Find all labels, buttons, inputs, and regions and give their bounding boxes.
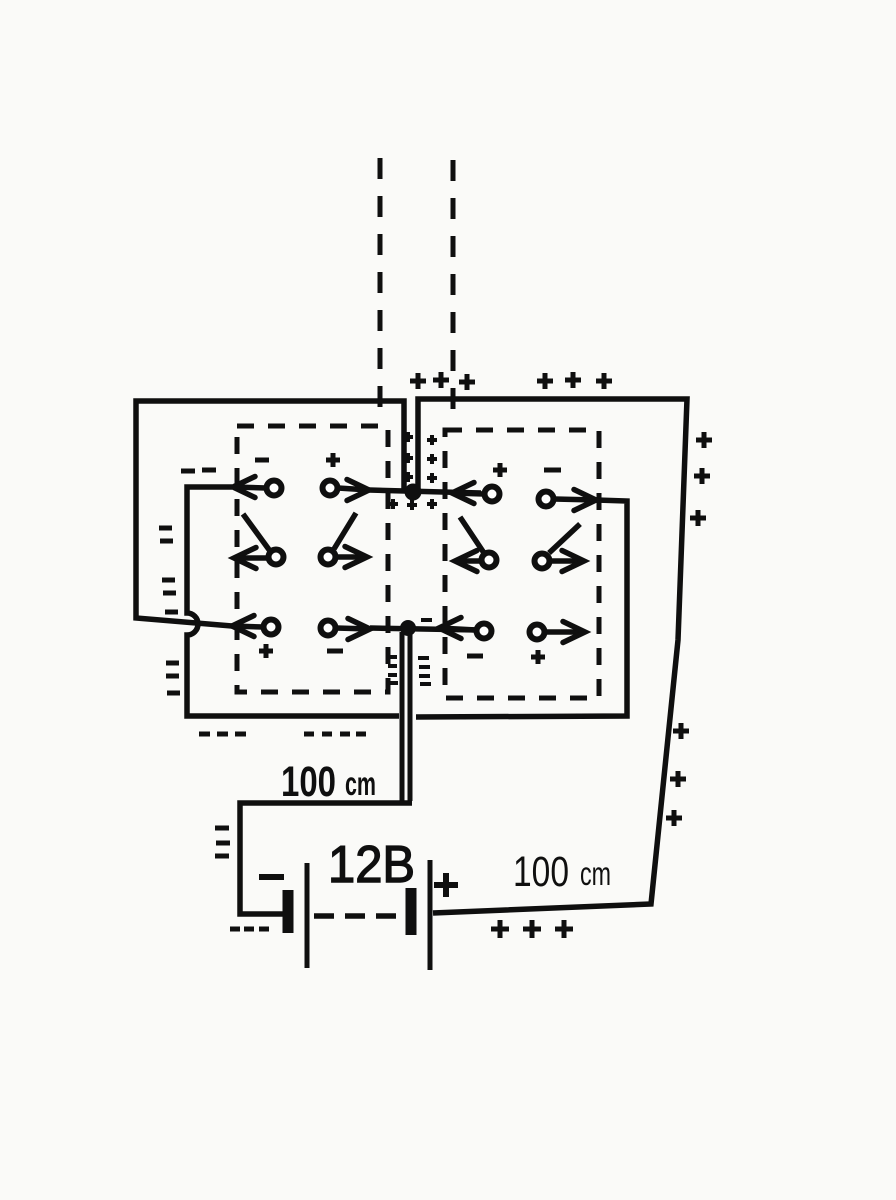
ion L3 diagonal tail <box>243 514 270 551</box>
svg-text:12В: 12В <box>328 836 415 894</box>
ion R5 negative sign near junction <box>421 618 432 622</box>
battery cell2 negative plate short <box>406 888 417 935</box>
battery plus terminal label <box>434 873 458 897</box>
ion R2 negative sign <box>544 468 561 473</box>
ion L4 diagonal tail <box>334 513 356 549</box>
node negative charges column left <box>159 526 172 531</box>
ion R5 with left arrow <box>439 618 461 639</box>
svg-text:100: 100 <box>281 758 336 806</box>
left dashed discharge region <box>237 426 388 692</box>
ion L4 with right arrow <box>321 550 336 565</box>
ion L5 with left arrow <box>232 616 254 637</box>
ion R2 with right arrow <box>539 492 554 507</box>
ion R1 with left arrow <box>452 483 474 504</box>
wire double lead right <box>408 632 413 801</box>
wire left inner loop with crossover hop <box>187 487 399 716</box>
ion L6 negative sign <box>327 649 343 654</box>
ion L3 with left arrow <box>234 548 256 569</box>
ion L1 negative sign <box>255 458 269 463</box>
ion R1 positive sign <box>493 463 507 477</box>
battery cell2 positive plate long <box>428 860 433 970</box>
wire bottom row conductor <box>370 628 478 630</box>
node junction top <box>405 484 422 501</box>
node positive row below top junction <box>388 499 398 509</box>
node positive charges right of electrode bottom <box>673 723 689 739</box>
svg-text:cm: cm <box>580 855 611 892</box>
wire left electrode outer boundary <box>136 401 404 626</box>
ion R4 with right arrow <box>535 554 550 569</box>
ion L6 with right arrow <box>321 621 336 636</box>
wire lead to battery negative <box>240 803 412 914</box>
node positive charges right of electrode top <box>696 432 712 448</box>
battery minus terminal label <box>259 874 284 880</box>
node negative row below battery minus wire <box>230 927 240 932</box>
wire right inner loop <box>416 500 627 717</box>
node negative row below left electrode <box>199 732 210 737</box>
battery cell1 positive plate long <box>305 863 310 968</box>
node negative stack above battery minus wire <box>215 826 229 831</box>
ion R4 diagonal tail <box>549 524 580 553</box>
wire dashed between battery cells <box>314 913 404 919</box>
node negative stack right of bottom lead <box>418 656 429 660</box>
wire top row conductor <box>369 490 481 493</box>
svg-text:100: 100 <box>513 848 569 896</box>
node junction bottom <box>400 620 416 636</box>
ion L2 positive sign <box>326 453 340 467</box>
node positive column in gap right <box>427 435 437 445</box>
svg-text:cm: cm <box>345 765 376 802</box>
ion R6 positive sign <box>531 650 545 664</box>
ion R5 negative sign <box>467 654 483 659</box>
ion R3 with left arrow <box>455 551 477 572</box>
ion R3 diagonal tail <box>460 517 484 553</box>
node negative pair above left inner wire <box>181 469 195 474</box>
wire dashed field line left (top) <box>378 158 383 413</box>
wire double lead left <box>400 632 405 801</box>
ion L1 electron with left arrow <box>233 477 255 498</box>
ion L2 with right arrow <box>323 481 338 496</box>
node positive column in gap left <box>403 432 413 442</box>
wire dashed field line right (top) <box>451 160 456 415</box>
node negative stack left of bottom lead <box>388 655 397 659</box>
ion L5 positive sign <box>259 644 273 658</box>
wire right electrode outer boundary to battery positive <box>418 399 687 913</box>
battery cell1 negative plate short <box>283 890 294 933</box>
node positive charges row above right electrode <box>537 373 553 389</box>
ion R6 with right arrow <box>530 625 545 640</box>
right dashed discharge region <box>445 430 599 698</box>
node positive row below battery plus wire <box>491 920 509 938</box>
node positive charges row above gap <box>410 373 426 389</box>
